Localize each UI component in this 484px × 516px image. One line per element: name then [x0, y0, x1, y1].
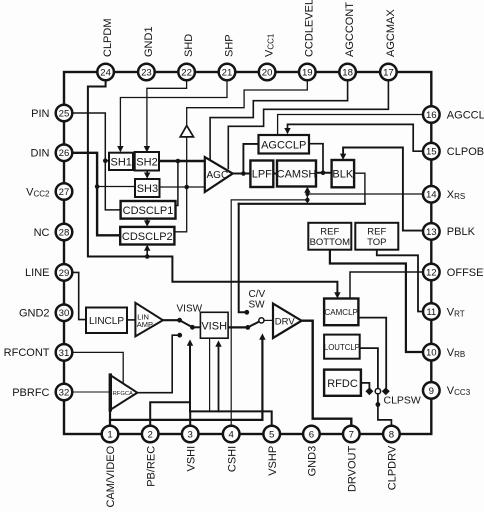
pin 23 [138, 64, 155, 81]
wire AGCCLP right to CAMSH-BLK net [309, 144, 323, 173]
svg-text:SH2: SH2 [136, 157, 157, 169]
pin 28 [56, 224, 73, 241]
wire SH3 left input from DIN line [95, 184, 135, 189]
wire VISH output to switch [228, 325, 250, 330]
svg-text:RFDC: RFDC [327, 378, 358, 390]
svg-text:CDSCLP1: CDSCLP1 [123, 205, 174, 217]
pin label CAM/VIDEO [105, 445, 117, 507]
switch blade LIN AMP to VISH [180, 320, 195, 329]
svg-text:NC: NC [34, 227, 50, 239]
arrow CLPDM into CAMCLP top [334, 292, 340, 298]
svg-text:13: 13 [426, 227, 437, 238]
svg-text:12: 12 [426, 267, 437, 278]
box BLK [332, 160, 355, 187]
wire pin17 AGCMAX to AGC top [228, 76, 388, 169]
pin label VCC3 [447, 385, 471, 397]
svg-text:6: 6 [309, 429, 314, 440]
wire CAMCLP right to clamp switch [358, 318, 386, 388]
pin 19 [299, 64, 316, 81]
box REF TOP [355, 223, 398, 250]
pin numbers left column [59, 108, 70, 398]
pin label VCC2 [26, 186, 50, 198]
op-amp DRV [273, 304, 302, 338]
svg-text:23: 23 [141, 67, 152, 78]
svg-text:16: 16 [426, 110, 437, 121]
wire pin4 CSHI up to CAMSH arrow [231, 200, 307, 426]
svg-text:1: 1 [107, 429, 112, 440]
wire arrowed VISH bottom control [218, 346, 220, 412]
pin 11 [423, 303, 440, 320]
junction SH2 output to CDSCLP1 right [176, 159, 181, 206]
svg-text:DRVOUT: DRVOUT [347, 446, 359, 493]
svg-text:9: 9 [429, 386, 434, 397]
pin label DIN [31, 148, 50, 160]
wire REF TOP to pin11 VRT [377, 250, 423, 312]
svg-text:RFGCA: RFGCA [113, 391, 133, 397]
pin label VSHI [185, 446, 197, 472]
contact circle DRV input [259, 318, 264, 323]
pin label LINE [25, 267, 49, 279]
box SH2 [135, 152, 159, 171]
pin 9 [423, 382, 440, 399]
node CLPSW label [384, 395, 421, 407]
pin label PB/REC [145, 446, 157, 487]
wire VISH bottom feed [209, 339, 211, 412]
pin label SHD [183, 34, 195, 57]
pin 21 [219, 64, 236, 81]
box SH3 [135, 179, 160, 197]
svg-text:15: 15 [426, 147, 437, 158]
svg-text:VISW: VISW [177, 304, 203, 315]
arrow into CAMSH bottom [304, 187, 310, 193]
wire REF BOTTOM to pin10 VRB [330, 250, 423, 352]
box CDSCLP1 [121, 201, 176, 219]
svg-text:REF: REF [367, 227, 386, 238]
svg-text:CAM/VIDEO: CAM/VIDEO [105, 445, 117, 507]
pin label GND2 [19, 308, 50, 320]
svg-text:BOTTOM: BOTTOM [310, 237, 351, 248]
svg-text:AGCCLI: AGCCLI [447, 109, 484, 121]
wire RFDC right to clamp switch [361, 383, 370, 388]
svg-text:LPF: LPF [252, 169, 272, 181]
wire VISW control arrow riser [189, 345, 191, 412]
svg-text:CLPDM: CLPDM [102, 18, 114, 57]
wire pin26 DIN to CDSCLP2 left [72, 153, 120, 236]
pin label XRS [447, 189, 465, 201]
pin label AGCMAX [385, 9, 397, 57]
pin label RFCONT [4, 347, 50, 359]
wire blade junction into VISH left [192, 326, 200, 328]
pin 31 [56, 344, 73, 361]
wire pin3 VSHI and pin5 VSHP bus [190, 411, 272, 426]
pin label PIN [31, 108, 49, 120]
pin label GND3 [307, 446, 319, 477]
pin 7 [343, 426, 360, 443]
svg-text:GND3: GND3 [307, 446, 319, 477]
pin numbers right column [426, 110, 437, 397]
svg-text:SHD: SHD [183, 34, 195, 57]
svg-text:22: 22 [181, 67, 192, 78]
op-amp AGC [205, 157, 233, 192]
wire SH3 output to AGC lower input [160, 186, 206, 188]
pin label PBLK [447, 226, 476, 238]
svg-text:AGCCLP: AGCCLP [261, 139, 306, 151]
arrow PBLK into BLK top [340, 148, 423, 231]
contact circle LOUTCLP throw [375, 389, 380, 394]
wire pin21 SHP to SH1 [120, 76, 227, 146]
svg-text:PBLK: PBLK [447, 226, 476, 238]
svg-text:17: 17 [383, 67, 394, 78]
pin label VCC1 [264, 33, 276, 57]
svg-text:PBRFC: PBRFC [12, 387, 49, 399]
junction PIN line to SH1 input [103, 158, 109, 163]
pin label VRT [447, 306, 465, 318]
svg-text:SH1: SH1 [110, 157, 131, 169]
wire pin25 PIN to CDSCLP1 left [72, 113, 120, 210]
junction AGCCLP output on CAMSH-BLK wire [321, 171, 326, 176]
arrow CLPDM into CDSCLP2 bottom [144, 245, 150, 251]
pin label CLPOB [447, 146, 484, 158]
wire pin32 PBRFC to RFGCA input [72, 391, 110, 393]
junction CLPDM line to CDSCLP2 arrow [145, 251, 150, 259]
pin 20 [259, 64, 276, 81]
svg-text:PIN: PIN [31, 108, 49, 120]
box SH1 [109, 153, 133, 170]
box RFDC [324, 370, 361, 396]
pin 25 [56, 105, 73, 122]
svg-text:21: 21 [222, 67, 233, 78]
pin 14 [423, 186, 440, 203]
pin 15 [423, 143, 440, 160]
wire CAMSH to BLK [316, 172, 332, 174]
svg-text:GND1: GND1 [143, 26, 155, 57]
contact diamond CAMCLP throw [382, 387, 390, 395]
wire pin1 CAM/VIDEO to RFGCA and DRV switch control [110, 339, 262, 427]
pin label CSHI [226, 446, 238, 472]
pin label PBRFC [12, 387, 49, 399]
contact diamond RFDC throw [365, 387, 373, 395]
svg-text:OFFSET: OFFSET [447, 267, 484, 279]
svg-text:8: 8 [389, 429, 394, 440]
pin 1 [102, 426, 119, 443]
wire attenuator down to CDSCLP2 right [175, 137, 187, 232]
svg-text:CLPOB: CLPOB [447, 146, 484, 158]
arrow SHP into SH1 top [117, 146, 123, 152]
pin label GND1 [143, 26, 155, 57]
pin 26 [56, 145, 73, 162]
pin 13 [423, 223, 440, 240]
svg-text:LINE: LINE [25, 267, 49, 279]
wire LOUTCLP right to clamp switch [360, 348, 378, 387]
svg-text:14: 14 [426, 190, 437, 201]
svg-text:AGCCONT: AGCCONT [344, 2, 356, 57]
pin 16 [423, 106, 440, 123]
wire XRS to pin14 [307, 193, 423, 195]
svg-text:CAMCLP: CAMCLP [325, 308, 358, 317]
pin 18 [339, 64, 356, 81]
pin 6 [303, 426, 320, 443]
arrow SH2 into SH3 top [144, 171, 150, 179]
wire clamp switch pole to pin8 CLPDRV [378, 394, 392, 426]
svg-text:18: 18 [342, 67, 353, 78]
wire contact to DRV [264, 319, 273, 321]
wire pin29 LINE to LINCLP [72, 272, 86, 319]
wire pin24 CLPDM to CDSCLP2 bottom and CAMCLP top [88, 76, 338, 294]
pin 27 [56, 183, 73, 200]
wire LINCLP to LIN AMP [127, 319, 135, 321]
box LINCLP [86, 308, 127, 334]
wire pin31 RFCONT to RFGCA top [72, 352, 123, 383]
svg-text:SH3: SH3 [137, 183, 158, 195]
svg-text:25: 25 [59, 108, 70, 119]
svg-text:CLPDRV: CLPDRV [387, 445, 399, 490]
arrow CLPOB into AGCCLP top [284, 128, 290, 134]
svg-text:CLPSW: CLPSW [384, 395, 421, 407]
svg-text:CCDLEVEL: CCDLEVEL [304, 0, 316, 57]
svg-text:VSHI: VSHI [185, 446, 197, 472]
pin label VRB [447, 347, 465, 359]
svg-text:30: 30 [59, 308, 70, 319]
svg-text:32: 32 [59, 387, 70, 398]
pin label AGCCLI [447, 109, 484, 121]
svg-text:AGCMAX: AGCMAX [385, 9, 397, 57]
wire pin22 SHD to SH2 [147, 76, 187, 146]
pin label OFFSET [447, 267, 484, 279]
junction attenuator line / SH3 output [184, 185, 189, 190]
svg-text:C/V: C/V [249, 289, 266, 300]
pin label CLPDRV [387, 445, 399, 490]
svg-text:28: 28 [59, 227, 70, 238]
node VISW label [177, 304, 203, 315]
svg-text:CSHI: CSHI [226, 446, 238, 472]
pin label CCDLEVEL [304, 0, 316, 57]
op-amp LIN AMP [135, 303, 163, 337]
wire XRS control bus [239, 203, 365, 205]
wire AGC output to LPF [233, 173, 251, 175]
pin 17 [380, 64, 397, 81]
svg-text:DRV: DRV [275, 316, 296, 327]
svg-text:29: 29 [59, 268, 70, 279]
pin label CLPDM [102, 18, 114, 57]
wire SH2 output to AGC input [159, 160, 205, 162]
pin label AGCCONT [344, 2, 356, 57]
pin 29 [56, 264, 73, 281]
svg-text:RFCONT: RFCONT [4, 347, 50, 359]
junction AGC output to AGCCLP left [241, 144, 258, 176]
svg-text:GND2: GND2 [19, 308, 50, 320]
pin 10 [423, 344, 440, 361]
pin label DRVOUT [347, 446, 359, 493]
wire DRV output to pin7 DRVOUT [302, 321, 352, 426]
pin label VSHP [267, 446, 279, 476]
svg-text:SW: SW [249, 300, 266, 311]
svg-text:4: 4 [229, 429, 235, 440]
svg-text:24: 24 [100, 67, 111, 78]
box VISH [200, 312, 228, 338]
svg-text:5: 5 [269, 429, 274, 440]
svg-text:27: 27 [59, 187, 70, 198]
arrow VISW switch control [187, 339, 193, 345]
junction clamp switch pole [376, 402, 381, 407]
wire C/V SW control from XRS bus [239, 204, 245, 312]
arrow SHD into SH2 top [144, 146, 150, 152]
svg-text:CAMSH: CAMSH [277, 169, 317, 181]
arrow CDSCLP1 into CDSCLP2 top [144, 219, 150, 227]
svg-text:VSHP: VSHP [267, 446, 279, 476]
arrow DRV switch control [259, 333, 265, 339]
attenuator triangle on CCDLEVEL line [180, 126, 193, 137]
switch blade VISH to DRV [248, 321, 260, 327]
pin 8 [383, 426, 400, 443]
box CAMCLP [324, 299, 358, 326]
pin 2 [142, 426, 159, 443]
box CAMSH [277, 161, 317, 187]
svg-text:SHP: SHP [223, 34, 235, 57]
pin label NC [34, 227, 50, 239]
pin 30 [56, 305, 73, 322]
svg-text:AGC: AGC [207, 170, 229, 181]
wire pin16 AGCCLI to AGCCLP top [278, 115, 423, 136]
svg-text:PB/REC: PB/REC [145, 446, 157, 487]
op-amp RFGCA [110, 375, 137, 410]
box LPF [250, 161, 273, 188]
svg-text:REF: REF [320, 227, 339, 238]
svg-text:CDSCLP2: CDSCLP2 [122, 231, 173, 243]
svg-text:AMP: AMP [137, 320, 153, 329]
pin 3 [182, 426, 199, 443]
wire pin2 PB/REC to VISW switch control [150, 402, 190, 426]
contact dot C/V SW control [244, 310, 249, 315]
pin label SHP [223, 34, 235, 57]
svg-text:BLK: BLK [332, 169, 353, 181]
box CDSCLP2 [120, 227, 174, 245]
svg-text:26: 26 [59, 148, 70, 159]
wire OFFSET pin12 to CAMCLP top [350, 272, 423, 298]
pin 4 [223, 426, 240, 443]
wire pin15 CLPOB to AGCCLP top [288, 124, 424, 151]
svg-text:11: 11 [426, 307, 436, 318]
svg-text:3: 3 [188, 429, 193, 440]
box REF BOTTOM [308, 223, 351, 250]
pin 5 [263, 426, 280, 443]
pin 12 [423, 264, 440, 281]
junction CSHI line / CAMSH arrow [305, 192, 309, 204]
wire pin1 up to RFGCA input edge [109, 410, 111, 420]
wire BLK right to XRS net [354, 173, 365, 204]
wire pin18 AGCCONT to AGC top [210, 76, 348, 159]
svg-text:TOP: TOP [367, 237, 386, 248]
svg-text:7: 7 [349, 429, 354, 440]
svg-text:LOUTCLP: LOUTCLP [324, 343, 360, 352]
svg-text:VISH: VISH [201, 320, 227, 332]
pin 22 [178, 64, 195, 81]
wire pin19 CCDLEVEL to attenuator [187, 76, 308, 126]
svg-text:DIN: DIN [31, 148, 50, 160]
wire RFGCA output to switch alternate contact [137, 333, 182, 393]
node C/V SW label [249, 289, 266, 311]
pin 32 [56, 384, 73, 401]
svg-text:2: 2 [148, 429, 153, 440]
svg-text:31: 31 [59, 348, 70, 359]
wire LIN AMP output to switch [163, 318, 182, 323]
chip body outline [64, 72, 431, 434]
svg-text:19: 19 [302, 67, 313, 78]
arrow into VISH bottom [215, 340, 221, 346]
svg-text:10: 10 [426, 348, 437, 359]
pin numbers bottom row [107, 429, 394, 440]
svg-text:20: 20 [262, 67, 273, 78]
box LOUTCLP [324, 335, 360, 359]
box AGCCLP [259, 135, 310, 154]
svg-text:LINCLP: LINCLP [89, 316, 124, 327]
pin numbers top row [100, 67, 393, 78]
pin 24 [97, 64, 114, 81]
wire LPF to CAMSH [273, 173, 277, 175]
